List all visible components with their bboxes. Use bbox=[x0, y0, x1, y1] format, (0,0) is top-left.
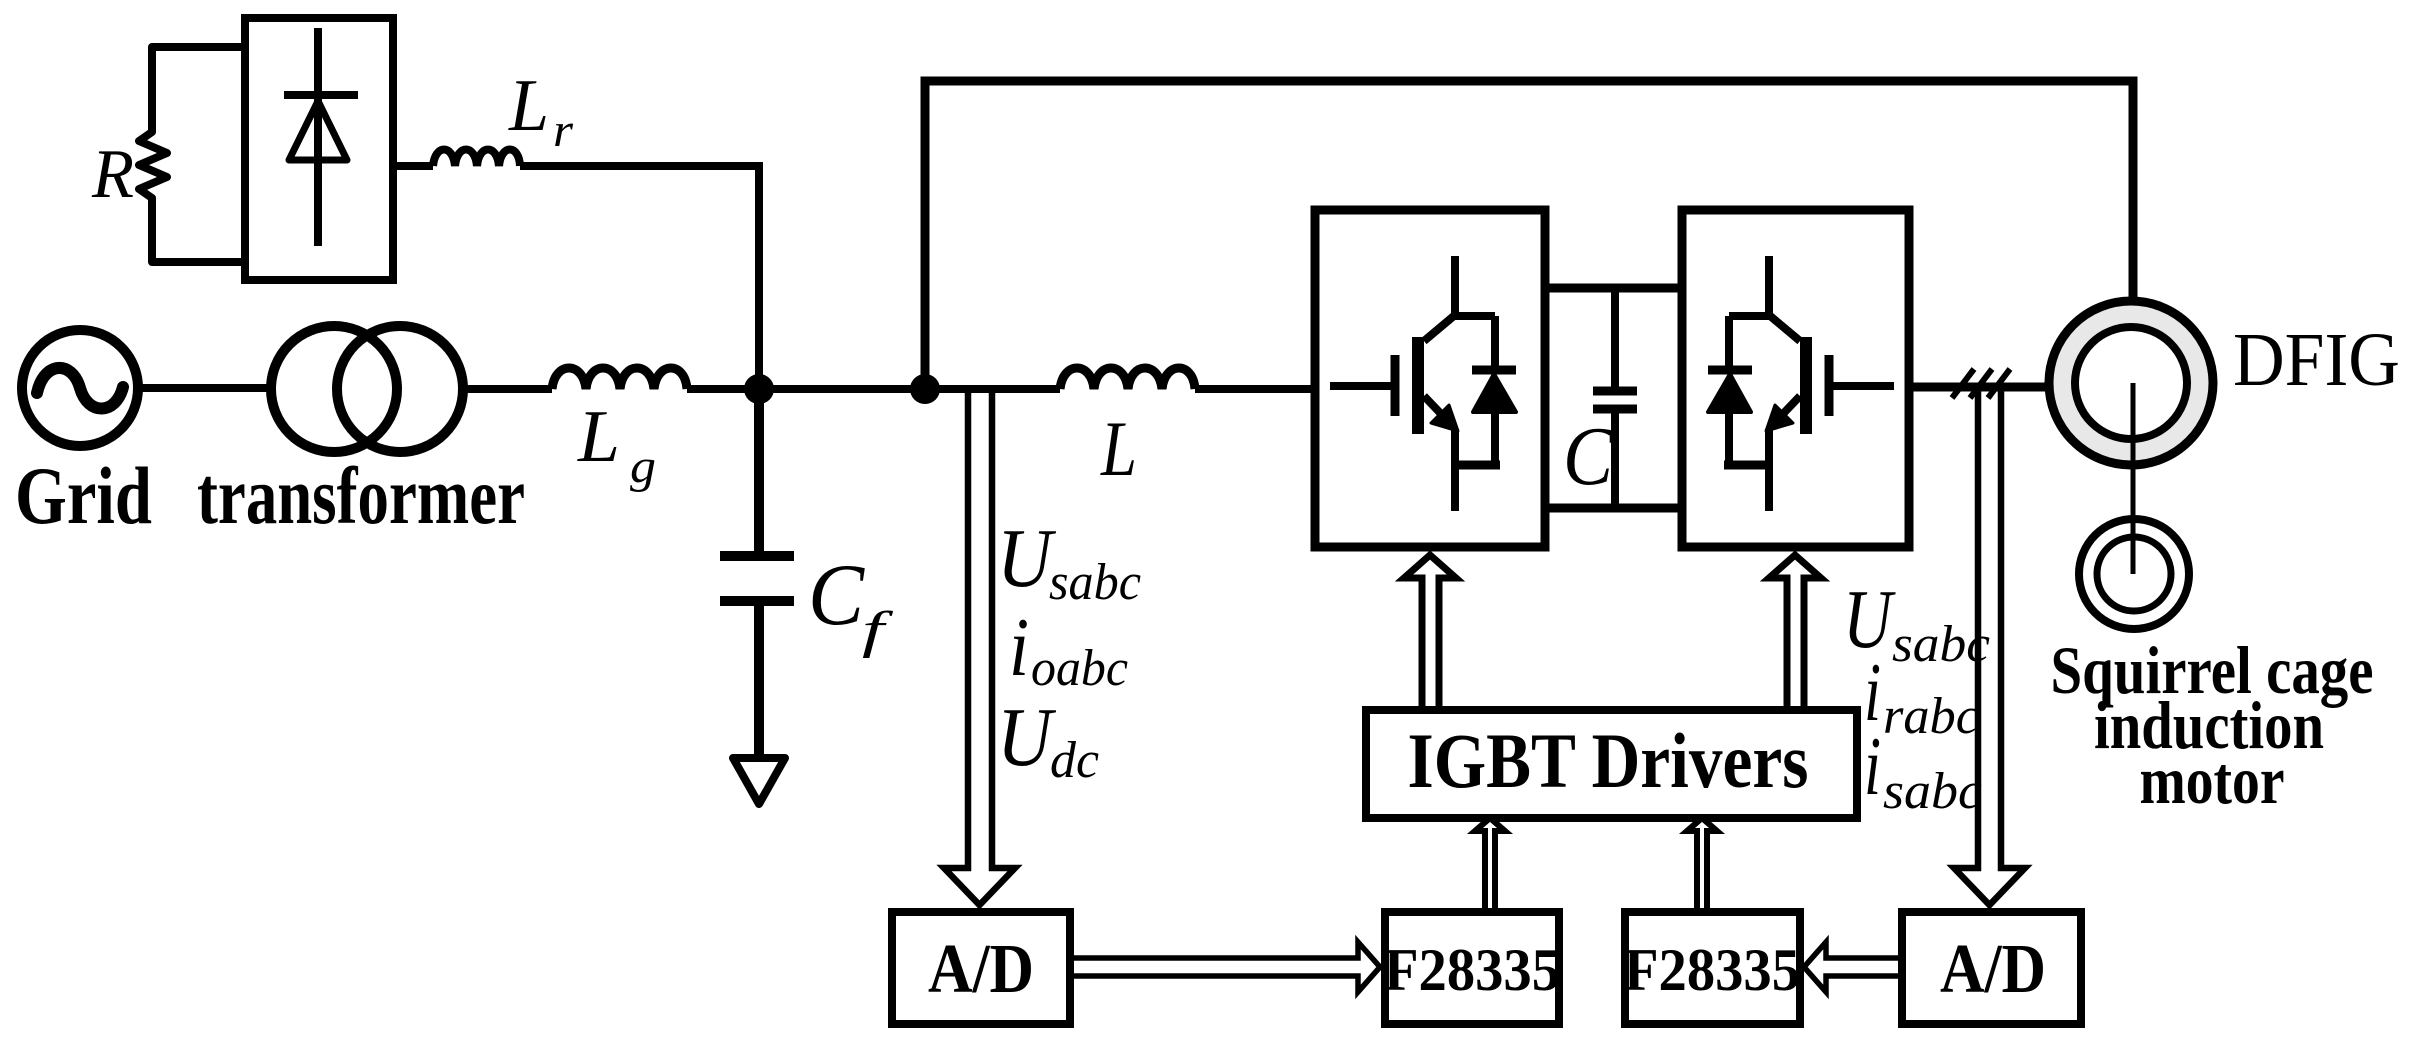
GSC converter box bbox=[1315, 210, 1545, 547]
DFIG machine bbox=[2049, 301, 2213, 465]
wire crowbar to Lr bbox=[397, 162, 433, 170]
A/D box right bbox=[1902, 912, 2081, 1024]
svg-text:A/D: A/D bbox=[1940, 931, 2046, 1008]
svg-text:L: L bbox=[1100, 405, 1137, 492]
ground arrow bbox=[733, 758, 785, 804]
IGBT Drivers box bbox=[1366, 710, 1857, 818]
svg-text:L: L bbox=[577, 396, 620, 478]
crowbar box bbox=[245, 18, 393, 280]
svg-text:sabc: sabc bbox=[1892, 616, 1990, 673]
crowbar diode D1 bbox=[314, 28, 322, 246]
F28335 box left bbox=[1385, 912, 1559, 1024]
node B bbox=[910, 374, 940, 404]
svg-text:C: C bbox=[1563, 410, 1614, 503]
transformer T1 bbox=[271, 326, 397, 452]
arrow A/D to F28335 (right) bbox=[1804, 942, 1898, 992]
svg-text:R: R bbox=[91, 136, 134, 213]
svg-text:L: L bbox=[508, 65, 549, 147]
rotor tap hollow arrow down to A/D bbox=[1954, 391, 2025, 905]
wire node B riser and top rail to DFIG bbox=[925, 81, 2133, 389]
svg-text:U: U bbox=[997, 512, 1057, 605]
A/D box left bbox=[892, 912, 1070, 1024]
DC link top wire bbox=[1545, 284, 1682, 293]
stator tap hollow arrow down to A/D bbox=[944, 391, 1015, 905]
arrow A/D to F28335 (left) bbox=[1074, 942, 1380, 992]
wire Lr corner down to node A bbox=[520, 166, 759, 389]
capacitor C bbox=[1611, 288, 1619, 387]
three-phase slashes bbox=[1952, 369, 1974, 398]
svg-text:Grid: Grid bbox=[15, 450, 152, 541]
wire L to GSC bbox=[1195, 385, 1315, 393]
DC link bottom wire bbox=[1545, 504, 1682, 513]
wire transformer to Lg bbox=[463, 385, 552, 393]
wire grid to transformer bbox=[138, 384, 272, 392]
RSC converter box bbox=[1682, 210, 1909, 547]
arrow F28335 to IGBT Drivers (right) bbox=[1687, 818, 1717, 908]
svg-text:i: i bbox=[1009, 601, 1029, 694]
grid source G1 bbox=[22, 330, 138, 446]
svg-text:F28335: F28335 bbox=[1384, 937, 1560, 1003]
svg-text:i: i bbox=[1864, 720, 1881, 813]
GSC IGBT Q1 bbox=[1330, 256, 1516, 511]
gate drive arrow to RSC bbox=[1769, 555, 1821, 708]
capacitor Cf bbox=[754, 389, 764, 551]
svg-text:F28335: F28335 bbox=[1624, 937, 1800, 1003]
node A bbox=[744, 374, 774, 404]
svg-text:U: U bbox=[997, 691, 1057, 784]
shaft bbox=[2131, 383, 2136, 574]
svg-text:r: r bbox=[553, 104, 573, 157]
svg-text:dc: dc bbox=[1050, 732, 1099, 789]
svg-text:DFIG: DFIG bbox=[2233, 318, 2400, 402]
gate drive arrow to GSC bbox=[1404, 555, 1456, 708]
svg-text:transformer: transformer bbox=[197, 450, 525, 541]
squirrel cage induction motor bbox=[2079, 519, 2189, 629]
inductor L bbox=[1060, 368, 1195, 389]
inductor Lr bbox=[433, 150, 520, 167]
arrow F28335 to IGBT Drivers (left) bbox=[1475, 818, 1505, 908]
RSC IGBT Q2 bbox=[1708, 256, 1894, 511]
svg-text:IGBT Drivers: IGBT Drivers bbox=[1408, 717, 1809, 804]
svg-text:sabc: sabc bbox=[1049, 554, 1141, 611]
wire Lg to node B bbox=[687, 385, 1060, 393]
rotor wire RSC to DFIG bbox=[1909, 383, 2080, 392]
svg-text:C: C bbox=[808, 547, 865, 644]
svg-text:sabc: sabc bbox=[1883, 763, 1982, 820]
inductor Lg bbox=[552, 368, 687, 389]
svg-text:f: f bbox=[862, 602, 894, 659]
svg-text:g: g bbox=[630, 440, 656, 493]
F28335 box right bbox=[1625, 912, 1800, 1024]
svg-text:oabc: oabc bbox=[1031, 640, 1128, 697]
crowbar resistor R bbox=[139, 47, 241, 262]
svg-text:rabc: rabc bbox=[1883, 688, 1979, 745]
svg-text:motor: motor bbox=[2140, 742, 2285, 818]
svg-text:A/D: A/D bbox=[928, 931, 1034, 1008]
